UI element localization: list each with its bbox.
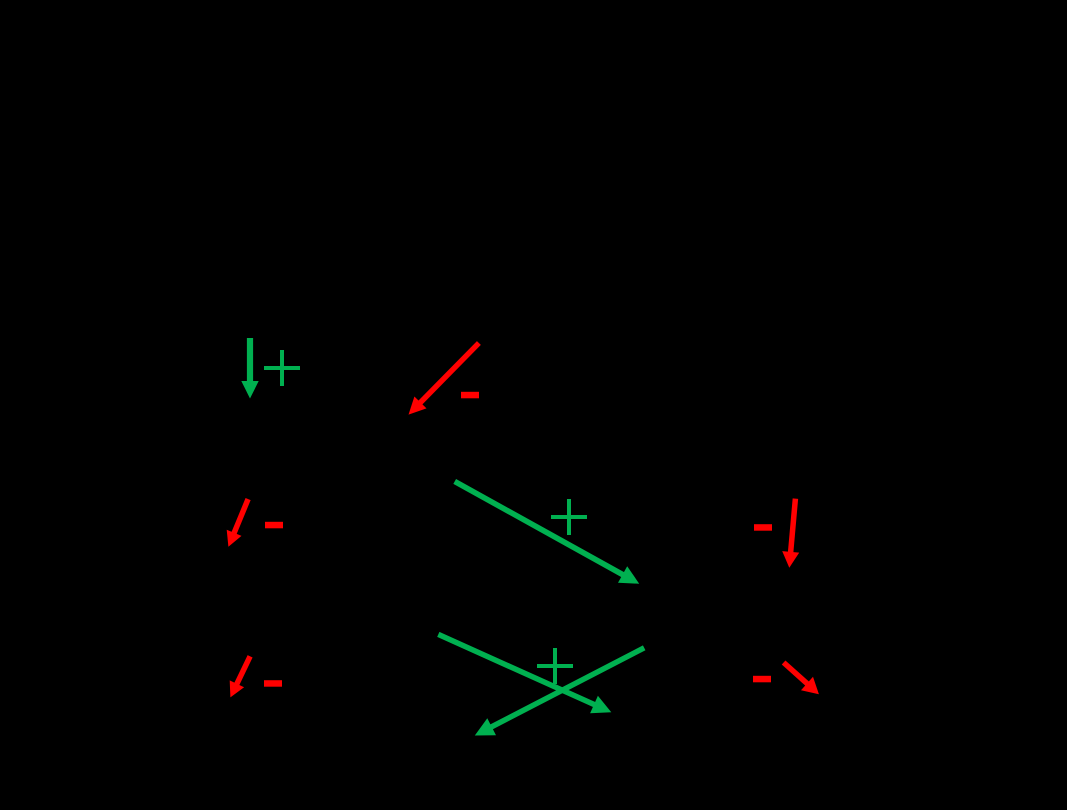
green arrow A2 (down-right): [455, 481, 640, 583]
plus sign P1: [264, 350, 300, 386]
red arrow B5 (down-right): [784, 663, 819, 695]
red arrow B2 (down-left): [227, 499, 248, 547]
red arrow B4 (down-left): [230, 656, 250, 697]
red arrow B1 (down-left): [409, 343, 479, 415]
minus sign M2: [265, 522, 283, 529]
plus sign P2: [551, 499, 587, 535]
minus sign M1: [461, 392, 479, 399]
minus sign M5: [753, 676, 771, 683]
minus sign M3: [754, 524, 772, 531]
minus sign M4: [264, 680, 282, 687]
plus sign P3: [537, 648, 573, 684]
green arrow A3 (down-right): [438, 634, 611, 713]
green arrow A4 (down-left): [475, 648, 644, 736]
green arrow A1 (down): [241, 338, 258, 399]
red arrow B3 (down): [782, 499, 799, 568]
